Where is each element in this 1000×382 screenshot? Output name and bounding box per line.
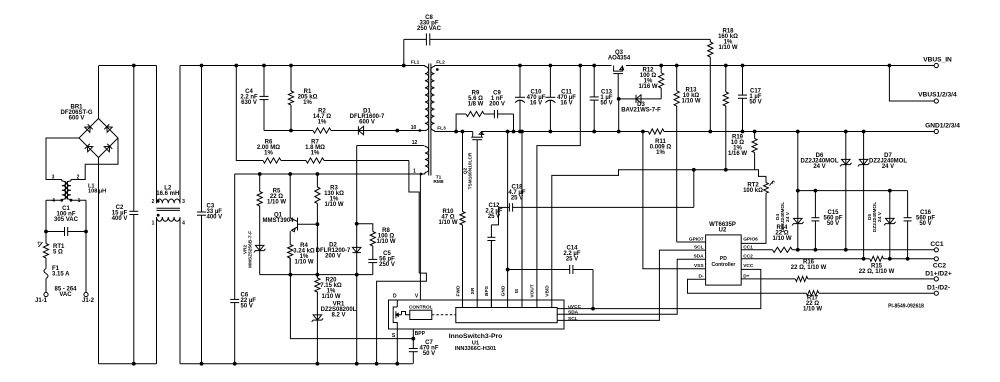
wire L1 left leg bbox=[45, 200, 47, 231]
svg-text:1/10 W: 1/10 W bbox=[294, 260, 313, 266]
svg-text:50 V: 50 V bbox=[600, 101, 612, 107]
svg-text:1/10 W: 1/10 W bbox=[438, 220, 457, 226]
capacitor C1 bbox=[46, 227, 86, 236]
label input voltage bbox=[54, 287, 77, 299]
wire VOUT sense bbox=[537, 66, 580, 308]
resistor R14 bbox=[773, 247, 793, 252]
label CC2 bbox=[933, 263, 947, 270]
label C16 bbox=[916, 210, 935, 227]
junction IS GND bbox=[520, 130, 524, 134]
diode D3 bbox=[632, 95, 645, 103]
wire IS riser bbox=[521, 132, 523, 308]
label J1-2 bbox=[82, 298, 95, 304]
label C13 bbox=[600, 90, 613, 107]
junction L2 top dot bbox=[157, 200, 160, 203]
junction R1 bottom bbox=[289, 129, 293, 133]
junction C15 CC1 bbox=[814, 248, 818, 252]
svg-text:1/16 W: 1/16 W bbox=[728, 151, 747, 157]
svg-text:10: 10 bbox=[411, 125, 417, 131]
junction R19b top bbox=[724, 64, 728, 68]
junction R5 top bbox=[258, 172, 262, 176]
capacitor C17 bbox=[738, 66, 747, 132]
svg-text:5 Ω: 5 Ω bbox=[53, 250, 63, 256]
svg-text:VOUT: VOUT bbox=[530, 284, 536, 297]
zener VR1 bbox=[312, 308, 324, 364]
svg-text:INN3366C-H301: INN3366C-H301 bbox=[455, 346, 496, 352]
junction C3 bottom bbox=[200, 362, 204, 366]
resistor R18 bbox=[708, 39, 713, 131]
junction C10 top bbox=[518, 64, 522, 68]
label L2 pin4 bbox=[182, 221, 185, 227]
wire VB/D sense bbox=[552, 170, 753, 308]
terminal VBUS_IN bbox=[934, 63, 938, 67]
svg-text:PD: PD bbox=[720, 256, 727, 262]
wire BPS riser bbox=[490, 241, 492, 308]
label U1 pin VOUT bbox=[530, 284, 536, 297]
label BR1 bbox=[60, 105, 92, 122]
junction C18 net bbox=[692, 168, 696, 172]
junction R8 tap bbox=[355, 222, 359, 226]
wire D3 to R12 bbox=[645, 98, 661, 100]
svg-text:2: 2 bbox=[77, 175, 80, 181]
inductor L2 bbox=[157, 199, 181, 221]
svg-text:3.15 A: 3.15 A bbox=[52, 271, 70, 277]
svg-text:1%: 1% bbox=[264, 151, 273, 157]
svg-text:1%: 1% bbox=[303, 100, 312, 106]
junction R3 top bbox=[316, 172, 320, 176]
label D1 bbox=[350, 109, 385, 126]
junction C13 top bbox=[592, 64, 596, 68]
wire C14 left bbox=[508, 269, 568, 271]
label U2 pin VSS bbox=[694, 263, 704, 269]
svg-text:D1-/D2-: D1-/D2- bbox=[927, 285, 950, 292]
label L2 pin3 bbox=[182, 199, 185, 205]
wire C14 right leg bbox=[592, 270, 594, 309]
label U1 refdes bbox=[455, 341, 496, 352]
resistor R17 bbox=[806, 291, 818, 296]
wire gate pulldown bbox=[618, 99, 620, 132]
svg-text:D1+/D2+: D1+/D2+ bbox=[925, 270, 952, 277]
label U1 pin GND bbox=[500, 285, 506, 296]
resistor R5 bbox=[257, 174, 262, 244]
terminal J1-1 bbox=[44, 292, 48, 296]
junction D4 mid bbox=[796, 189, 800, 193]
svg-text:U2: U2 bbox=[719, 228, 727, 234]
junction C1 left bbox=[44, 230, 48, 234]
svg-text:200 V: 200 V bbox=[489, 102, 505, 108]
wire R3 down bbox=[316, 224, 318, 274]
label Q2 bbox=[463, 152, 474, 189]
svg-text:16.6 mH: 16.6 mH bbox=[156, 191, 179, 197]
wire GND line right bbox=[482, 131, 649, 133]
label VR1 bbox=[321, 302, 357, 319]
label C5 bbox=[379, 251, 395, 268]
label C7 bbox=[419, 340, 438, 357]
capacitor C18 bbox=[499, 203, 694, 211]
svg-text:1%: 1% bbox=[318, 120, 327, 126]
terminal CC2 bbox=[934, 257, 938, 261]
junction D5 top bbox=[888, 189, 892, 193]
svg-text:FWD: FWD bbox=[455, 285, 461, 296]
wire clamp top line bbox=[798, 190, 908, 192]
resistor R13 bbox=[674, 66, 679, 243]
resistor R8 bbox=[370, 227, 375, 257]
label C4 bbox=[240, 89, 258, 106]
wire RT2 link bbox=[753, 170, 766, 183]
wire D- line right bbox=[819, 292, 934, 294]
svg-text:630 V: 630 V bbox=[241, 100, 257, 106]
label U1 pin S bbox=[392, 333, 396, 339]
svg-text:1/10 W: 1/10 W bbox=[321, 294, 340, 300]
wire C8 left leg bbox=[403, 39, 405, 65]
junction GNDpin bbox=[506, 130, 510, 134]
junction drain node bbox=[395, 129, 399, 133]
wire D- line bbox=[688, 279, 807, 293]
IC U1 secondary controller box bbox=[456, 308, 557, 323]
wire C18 net riser bbox=[693, 170, 695, 208]
label D3 bbox=[621, 102, 661, 114]
svg-text:BPP: BPP bbox=[415, 331, 426, 337]
junction R13 top bbox=[675, 64, 679, 68]
wire CC2 line right bbox=[884, 258, 935, 260]
label U1 pin VB/D bbox=[545, 285, 551, 297]
wire GND line left bbox=[435, 131, 473, 133]
svg-text:FL2: FL2 bbox=[436, 60, 445, 66]
svg-text:25 V: 25 V bbox=[566, 256, 578, 262]
junction C17 top bbox=[741, 64, 745, 68]
svg-text:1/10 W: 1/10 W bbox=[324, 202, 343, 208]
terminal J1-2 bbox=[84, 292, 88, 296]
junction gate GND bbox=[617, 130, 621, 134]
junction BPP node bbox=[411, 337, 415, 341]
wire R4 to bias node bbox=[289, 258, 291, 275]
svg-text:J1-2: J1-2 bbox=[82, 298, 95, 304]
svg-text:50 V: 50 V bbox=[827, 221, 839, 227]
wire clamp line bbox=[264, 130, 313, 132]
svg-text:1/10 W: 1/10 W bbox=[376, 239, 395, 245]
svg-text:1/10 W: 1/10 W bbox=[772, 236, 791, 242]
capacitor C11 bbox=[545, 66, 555, 132]
label U2 pin CC1 bbox=[743, 244, 753, 250]
capacitor C6 bbox=[230, 174, 239, 364]
svg-text:RM8: RM8 bbox=[433, 179, 443, 185]
resistor R19b bbox=[723, 66, 728, 170]
svg-text:VAC: VAC bbox=[59, 292, 72, 298]
svg-text:1/10 W: 1/10 W bbox=[803, 307, 822, 313]
junction C4 top bbox=[262, 64, 266, 68]
label FL1 bbox=[411, 60, 420, 66]
resistor R7 bbox=[306, 158, 409, 163]
wire RT2 to GPIO6 bbox=[741, 193, 766, 243]
wire GND riser bbox=[507, 132, 509, 308]
wire CC1 line bbox=[741, 249, 772, 251]
label C12 bbox=[485, 203, 502, 220]
junction V return rail bbox=[375, 362, 379, 366]
thermistor RT1 mark bbox=[38, 241, 43, 248]
zener VR2 bbox=[254, 244, 266, 275]
wire S pin bbox=[396, 329, 398, 364]
wire snubber right leg bbox=[513, 114, 515, 132]
svg-text:VCC: VCC bbox=[743, 263, 754, 269]
label R17 bbox=[803, 296, 822, 313]
junction D7 GND bbox=[862, 130, 866, 134]
wire bridge - output bbox=[98, 158, 100, 364]
label R13 bbox=[681, 88, 700, 105]
label U1 pin SCL bbox=[568, 316, 578, 322]
wire secondary rail bbox=[435, 65, 612, 67]
svg-text:50 V: 50 V bbox=[919, 221, 931, 227]
zener D7 bbox=[858, 132, 870, 259]
label R7 bbox=[305, 140, 325, 157]
label VR2 bbox=[243, 231, 254, 268]
resistor R19 bbox=[752, 132, 757, 170]
wire bridge AC left bbox=[46, 138, 79, 180]
svg-text:Controller: Controller bbox=[711, 262, 735, 268]
svg-text:PI-8549-092618: PI-8549-092618 bbox=[888, 303, 924, 309]
IC U1 internal MOSFET bbox=[393, 300, 410, 329]
junction VSS GND bbox=[641, 130, 645, 134]
junction R18 GND bbox=[708, 130, 712, 134]
terminal GND1/2/3/4 bbox=[934, 129, 938, 133]
junction bias pin1 bbox=[420, 173, 423, 176]
capacitor C8 bbox=[404, 33, 711, 45]
wire bottom rail segment A bbox=[99, 363, 157, 365]
label VBUS_IN bbox=[923, 57, 952, 64]
svg-text:1/10 W: 1/10 W bbox=[718, 45, 737, 51]
wire FWD riser lower bbox=[462, 225, 464, 308]
svg-text:V: V bbox=[415, 293, 419, 299]
svg-text:250 VAC: 250 VAC bbox=[417, 26, 442, 32]
svg-text:GPIO6: GPIO6 bbox=[743, 236, 758, 242]
junction R19 GND bbox=[753, 130, 757, 134]
wire bridge AC right bbox=[71, 138, 118, 180]
resistor R6 bbox=[263, 158, 306, 163]
junction D7 CC2 bbox=[862, 257, 866, 261]
zener D4 bbox=[792, 132, 804, 250]
label U1 pin uVCC bbox=[568, 304, 582, 310]
svg-text:100 kΩ: 100 kΩ bbox=[743, 188, 763, 194]
wire GPIO7 link bbox=[677, 241, 706, 243]
label R12 bbox=[638, 68, 657, 91]
label C9 bbox=[489, 91, 505, 108]
junction R3 base bbox=[316, 222, 320, 226]
transformer T1 primary winding FL1 bbox=[420, 66, 429, 131]
svg-text:GND1/2/3/4: GND1/2/3/4 bbox=[925, 123, 960, 130]
label U1 pin SDA bbox=[568, 310, 579, 316]
wire bias return bbox=[356, 275, 358, 364]
wire BPP pin bbox=[412, 329, 414, 339]
terminal VBUS1/2/3/4 bbox=[934, 99, 938, 103]
label R16 bbox=[791, 259, 827, 271]
thermistor RT2 mark bbox=[770, 180, 776, 186]
svg-text:VBUS1/2/3/4: VBUS1/2/3/4 bbox=[918, 92, 957, 99]
label C8 bbox=[417, 15, 442, 32]
label PI number bbox=[888, 303, 924, 309]
label L2 pin1 bbox=[152, 221, 155, 227]
label R6 bbox=[257, 140, 280, 157]
label U2 pin GPIO7 bbox=[689, 236, 704, 242]
junction R12 top bbox=[659, 64, 663, 68]
svg-text:4: 4 bbox=[52, 198, 55, 204]
svg-text:24 V: 24 V bbox=[877, 211, 883, 222]
wire secondary rail after Q3 bbox=[626, 65, 934, 67]
svg-text:BPS: BPS bbox=[484, 285, 490, 296]
wire L2 pin1 drop bbox=[156, 217, 158, 364]
svg-text:1/16 W: 1/16 W bbox=[638, 84, 657, 90]
label pin 10 bbox=[411, 125, 417, 131]
junction L1 pin4 dot bbox=[60, 199, 63, 202]
junction R6 feed bbox=[234, 64, 238, 68]
svg-text:1/10 W: 1/10 W bbox=[681, 99, 700, 105]
transistor Q3 load switch bbox=[613, 66, 623, 99]
svg-text:InnoSwitch3-Pro: InnoSwitch3-Pro bbox=[449, 333, 503, 340]
label C15 bbox=[823, 210, 842, 227]
resistor R2 bbox=[313, 128, 337, 133]
label RT2 bbox=[743, 182, 763, 194]
label pin 1 bbox=[413, 169, 416, 175]
label D5 bbox=[867, 202, 883, 232]
label U1 pin IS bbox=[514, 288, 520, 293]
wire bias line bbox=[235, 173, 426, 175]
resistor R3 bbox=[315, 174, 320, 224]
wire top rail segment A bbox=[99, 65, 157, 67]
junction VOUT rail bbox=[578, 64, 582, 68]
svg-text:t°: t° bbox=[772, 180, 776, 185]
wire bias low line bbox=[260, 274, 373, 276]
label F1 bbox=[52, 266, 70, 278]
junction C2 bottom bbox=[132, 362, 136, 366]
junction D6 GND bbox=[844, 130, 848, 134]
label U1 pin BPS bbox=[484, 285, 490, 296]
wire Q3 gate line bbox=[618, 98, 632, 100]
resistor R11 shunt bbox=[648, 129, 664, 134]
junction FL2 dot bbox=[436, 68, 439, 71]
svg-text:8.2 V: 8.2 V bbox=[331, 313, 345, 319]
label U1 name bbox=[449, 333, 503, 340]
svg-text:22 Ω, 1/10 W: 22 Ω, 1/10 W bbox=[791, 265, 827, 271]
capacitor C4 bbox=[260, 66, 269, 131]
label C18 bbox=[508, 184, 525, 201]
label C6 bbox=[241, 293, 257, 310]
capacitor C15 bbox=[811, 191, 819, 250]
wire SCL line bbox=[557, 250, 705, 320]
thermistor RT2 bbox=[764, 183, 769, 194]
svg-text:BAV21WS-7-F: BAV21WS-7-F bbox=[621, 108, 661, 114]
label L1 pins bbox=[52, 175, 55, 181]
label T1 bbox=[433, 175, 443, 185]
label U1 pin BPP bbox=[415, 331, 426, 337]
label Q3 bbox=[608, 50, 631, 62]
svg-text:1: 1 bbox=[152, 221, 155, 227]
junction C15 top bbox=[814, 189, 818, 193]
svg-text:VSS: VSS bbox=[694, 263, 704, 269]
label R3 bbox=[324, 186, 344, 209]
label D7 bbox=[869, 153, 907, 170]
transformer T1 core bbox=[429, 64, 431, 176]
label C11 bbox=[557, 90, 576, 107]
svg-text:J1-1: J1-1 bbox=[35, 298, 48, 304]
wire D+ line bbox=[741, 278, 795, 280]
junction L1 pin1 dot bbox=[70, 199, 73, 202]
junction C14 uVCC bbox=[591, 307, 595, 311]
svg-text:600 V: 600 V bbox=[69, 116, 85, 122]
junction D6 CC1 bbox=[844, 248, 848, 252]
svg-text:SCL: SCL bbox=[694, 244, 704, 250]
svg-text:22 Ω, 1/10 W: 22 Ω, 1/10 W bbox=[859, 269, 895, 275]
wire line-sense feed bbox=[236, 66, 263, 161]
svg-text:CONTROL: CONTROL bbox=[409, 304, 433, 310]
wire uVCC line bbox=[557, 269, 761, 308]
label D1+/D2+ bbox=[925, 270, 952, 277]
label D6 bbox=[800, 153, 838, 170]
label U1 pin V bbox=[415, 293, 419, 299]
svg-text:CC2: CC2 bbox=[933, 263, 947, 270]
label U2 pin VCC bbox=[743, 263, 754, 269]
label R15 bbox=[859, 264, 895, 276]
svg-text:MMSZ5256B-7-F: MMSZ5256B-7-F bbox=[248, 231, 254, 268]
junction snubber right bbox=[512, 130, 516, 134]
capacitor C13 bbox=[590, 66, 599, 132]
svg-text:50 V: 50 V bbox=[749, 100, 761, 106]
diode D2 bbox=[352, 146, 361, 275]
junction bias return rail bbox=[355, 362, 359, 366]
svg-text:D: D bbox=[393, 293, 397, 299]
wire L2 pin4 drop bbox=[179, 217, 181, 364]
capacitor C2 bbox=[129, 66, 138, 364]
transistor Q2 SR FET with SR pin wire bbox=[471, 132, 483, 308]
resistor R16 bbox=[795, 276, 807, 281]
svg-text:250 V: 250 V bbox=[379, 262, 395, 268]
junction C10 bottom bbox=[518, 130, 522, 134]
label L2 pin2 bbox=[152, 199, 155, 205]
svg-text:SDA: SDA bbox=[568, 310, 579, 316]
label R20 bbox=[320, 278, 342, 301]
svg-text:200 V: 200 V bbox=[325, 254, 341, 260]
label C2 bbox=[112, 205, 128, 222]
svg-text:SDA: SDA bbox=[693, 253, 704, 259]
label RT1 bbox=[53, 244, 65, 256]
svg-text:GPIO7: GPIO7 bbox=[689, 236, 704, 242]
label D2 bbox=[316, 243, 351, 260]
svg-text:1: 1 bbox=[78, 198, 81, 204]
label FL2 bbox=[436, 60, 445, 66]
junction C8 rail bbox=[402, 64, 406, 68]
label FL3 bbox=[437, 126, 446, 132]
label R5 bbox=[267, 189, 286, 206]
diode D1 bbox=[337, 126, 420, 135]
junction C11 top bbox=[549, 64, 553, 68]
wire C12 to C18 bbox=[491, 207, 498, 225]
label U2 pin D- bbox=[699, 274, 704, 280]
svg-text:TSM160N10LCR: TSM160N10LCR bbox=[468, 152, 474, 189]
svg-text:1%: 1% bbox=[656, 150, 665, 156]
label R9 bbox=[468, 91, 484, 108]
label GND1/2/3/4 bbox=[925, 123, 960, 130]
resistor R4 bbox=[288, 245, 293, 275]
fuse F1 bbox=[44, 267, 48, 292]
svg-text:24 V: 24 V bbox=[813, 164, 825, 170]
junction C16 CC2 bbox=[906, 257, 910, 261]
junction C1 right bbox=[84, 230, 88, 234]
svg-text:12: 12 bbox=[412, 140, 418, 146]
junction R1 top bbox=[289, 64, 293, 68]
wire top rail segment B bbox=[180, 65, 425, 67]
junction L2 bottom dot bbox=[157, 214, 160, 217]
label J1-1 bbox=[35, 298, 48, 304]
svg-text:1/8 W: 1/8 W bbox=[468, 102, 484, 108]
svg-text:MMST3904: MMST3904 bbox=[262, 218, 294, 224]
wire L2 pin3 rise bbox=[179, 66, 181, 204]
